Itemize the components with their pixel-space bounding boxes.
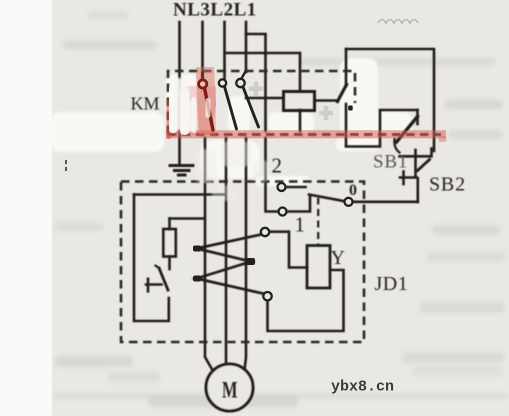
- svg-text:2: 2: [272, 154, 283, 178]
- svg-text:SB2: SB2: [429, 174, 466, 196]
- svg-text:ybx8.cn: ybx8.cn: [331, 379, 394, 396]
- svg-text:SB1: SB1: [373, 152, 408, 173]
- svg-text:Y: Y: [331, 247, 345, 269]
- svg-text:1: 1: [295, 213, 306, 237]
- svg-text:JD1: JD1: [375, 273, 409, 295]
- svg-text:KM: KM: [131, 94, 160, 114]
- svg-text:0: 0: [349, 182, 357, 199]
- svg-text:NL3L2L1: NL3L2L1: [173, 0, 257, 21]
- svg-text:M: M: [222, 378, 238, 403]
